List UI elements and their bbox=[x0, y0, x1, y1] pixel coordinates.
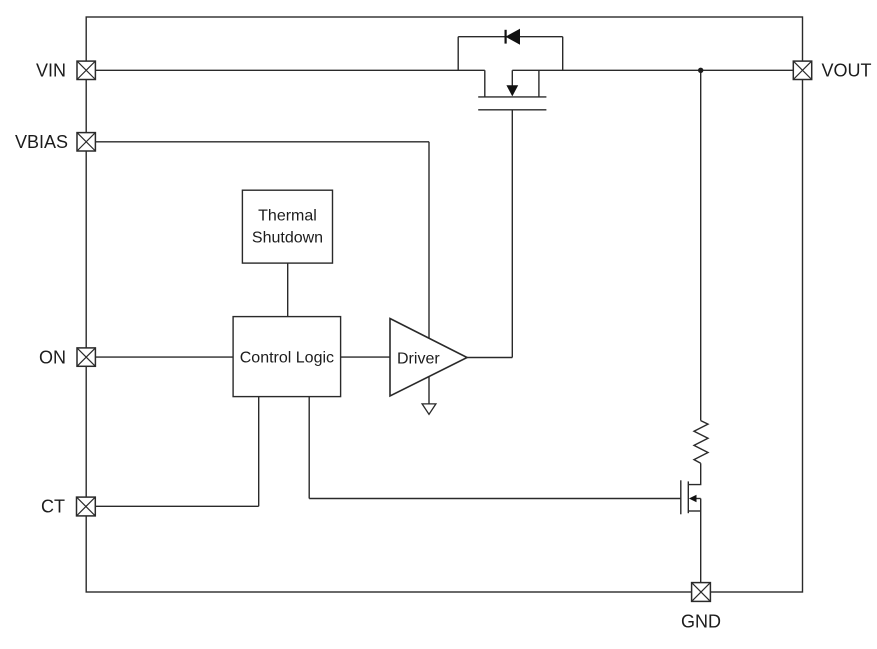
svg-text:Thermal: Thermal bbox=[258, 208, 317, 225]
pin GND bbox=[692, 583, 711, 602]
thermal shutdown block bbox=[242, 190, 332, 263]
pin VIN bbox=[77, 61, 95, 79]
wire CT horizontal bbox=[95, 505, 258, 507]
svg-text:Control Logic: Control Logic bbox=[240, 349, 334, 366]
wire VIN to pass FET source bbox=[96, 69, 485, 71]
transistor Q2 (NMOS) bbox=[681, 480, 701, 514]
control logic block bbox=[233, 317, 341, 397]
pass transistor Q1 bbox=[478, 70, 546, 110]
wire pass FET drain to VOUT bbox=[512, 69, 793, 71]
ground symbol below driver bbox=[422, 404, 436, 414]
resistor R1 bbox=[694, 421, 708, 464]
wire Control Logic down to gate net bbox=[308, 397, 310, 499]
pin CT bbox=[77, 497, 96, 516]
pin VBIAS bbox=[77, 133, 95, 151]
diode D1 (body diode) bbox=[506, 30, 520, 44]
driver U1 bbox=[390, 319, 467, 397]
wire VBIAS horizontal bbox=[96, 141, 429, 143]
svg-text:VOUT: VOUT bbox=[822, 60, 872, 80]
transistor Q1 body arrow bbox=[506, 85, 518, 96]
IC boundary box bbox=[86, 17, 802, 592]
wire pass FET gate lead bbox=[511, 110, 513, 358]
wire Thermal Shutdown to Control Logic bbox=[287, 263, 289, 317]
wire ON to Control Logic bbox=[96, 356, 233, 358]
svg-text:CT: CT bbox=[41, 497, 65, 517]
wire gate net to NMOS gate bbox=[309, 498, 681, 500]
pin ON bbox=[77, 348, 95, 366]
wire VOUT node down to resistor bbox=[700, 70, 702, 420]
wire diode left leg bbox=[457, 37, 459, 71]
svg-text:Driver: Driver bbox=[397, 350, 440, 367]
wire CT riser to Control Logic bbox=[258, 397, 260, 507]
wire diode branch bbox=[458, 36, 563, 38]
node A junction dot at VOUT branch bbox=[698, 68, 703, 73]
svg-text:VBIAS: VBIAS bbox=[15, 132, 68, 152]
wire diode right leg bbox=[562, 37, 564, 71]
wire Driver output to gate lead bbox=[467, 357, 512, 359]
svg-text:ON: ON bbox=[39, 347, 66, 367]
transistor Q2 arrow bbox=[689, 495, 697, 502]
svg-text:Shutdown: Shutdown bbox=[252, 230, 323, 247]
wire NMOS source to GND pin bbox=[700, 499, 702, 583]
wire resistor to NMOS drain bbox=[688, 463, 700, 484]
wire Control Logic to Driver bbox=[341, 356, 390, 358]
pin VOUT bbox=[793, 61, 811, 79]
svg-text:GND: GND bbox=[681, 611, 721, 631]
svg-text:VIN: VIN bbox=[36, 61, 66, 81]
wire VBIAS down through driver bbox=[428, 142, 430, 404]
